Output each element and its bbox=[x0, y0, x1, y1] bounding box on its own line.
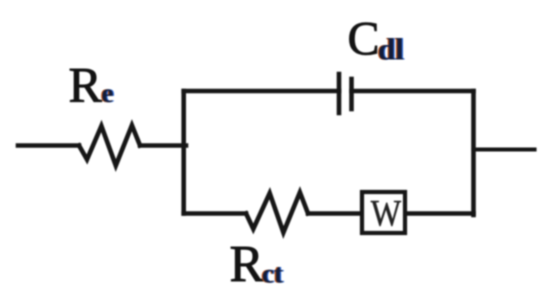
svg-text:R: R bbox=[69, 56, 103, 112]
svg-text:e: e bbox=[102, 78, 114, 108]
svg-text:W: W bbox=[371, 193, 402, 233]
svg-text:ct: ct bbox=[262, 258, 283, 288]
wire bottom branch left segment bbox=[184, 211, 246, 216]
wire right lead bbox=[474, 147, 535, 151]
resistor R1 zigzag (Re) bbox=[79, 125, 140, 165]
wire left lead bbox=[18, 143, 79, 148]
svg-text:R: R bbox=[230, 236, 265, 293]
capacitor C1 right plate (Cdl) bbox=[349, 79, 354, 109]
svg-text:C: C bbox=[348, 12, 380, 65]
wire right vertical branch bbox=[471, 91, 476, 215]
label Re subscript e bbox=[100, 78, 115, 108]
warburg element W box bbox=[362, 192, 405, 233]
wire top branch right of capacitor bbox=[352, 89, 474, 94]
label Rct subscript ct bbox=[261, 258, 285, 288]
wire Warburg box to right node bbox=[407, 211, 474, 216]
svg-text:dl: dl bbox=[378, 31, 404, 66]
capacitor C1 left plate (Cdl) bbox=[337, 74, 342, 113]
wire Rct to Warburg box bbox=[308, 211, 360, 216]
wire left vertical branch bbox=[181, 91, 186, 214]
resistor R2 zigzag (Rct) bbox=[246, 192, 308, 232]
wire Re to left node bbox=[140, 143, 186, 148]
label Cdl subscript dl bbox=[377, 31, 406, 66]
wire top branch left of capacitor bbox=[184, 89, 339, 94]
